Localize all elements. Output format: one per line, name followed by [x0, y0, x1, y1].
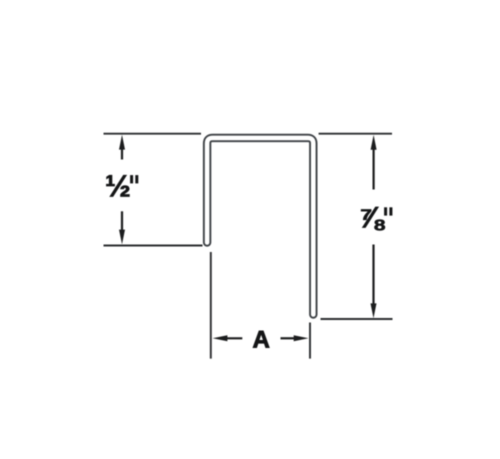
extension line A right vertical	[309, 323, 311, 359]
staple profile outer/inner outline	[207, 138, 313, 315]
arrow left (A dim)	[213, 335, 243, 341]
extension line top-right	[319, 133, 392, 135]
label seven-eighth quote mark	[384, 207, 392, 215]
staple profile white core	[207, 138, 313, 315]
svg-text:A: A	[253, 327, 270, 354]
svg-text:⅞: ⅞	[358, 202, 385, 235]
extension line bottom-left (half inch)	[104, 245, 203, 247]
arrow up (seven-eighth dim)	[371, 135, 377, 190]
arrow down (seven-eighth dim)	[371, 245, 377, 319]
svg-text:½: ½	[105, 169, 131, 204]
extension line bottom-right (seven-eighth inch)	[321, 318, 393, 320]
arrow up (half inch dim)	[119, 135, 125, 160]
label half inch quote mark	[130, 175, 138, 183]
extension line A left vertical	[210, 252, 212, 359]
arrow down (half inch dim)	[119, 211, 125, 244]
extension line top-left	[104, 133, 202, 135]
arrow right (A dim)	[281, 335, 309, 341]
